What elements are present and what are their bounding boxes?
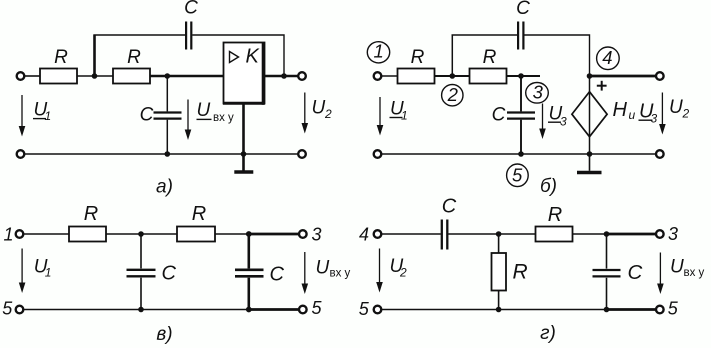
terminal: input port (b) [374, 72, 382, 80]
ground (b) [577, 154, 602, 173]
svg-text:в): в) [156, 324, 172, 345]
svg-text:2: 2 [447, 84, 459, 105]
label: U2 (a) [312, 98, 333, 122]
bottom wire (g) [381, 309, 607, 311]
capacitor C second shunt (v, emphasized) [235, 234, 285, 310]
resistor R2 (second R, v) [177, 203, 215, 242]
terminal: bottom right (b) [656, 150, 664, 158]
label: U_vx.u (v) [316, 257, 351, 279]
svg-text:г): г) [540, 323, 556, 344]
svg-text:5: 5 [668, 299, 679, 319]
svg-text:R: R [84, 203, 98, 225]
label: U1 (b) [390, 99, 408, 123]
svg-text:R: R [513, 260, 528, 283]
arrow: U1 (v) [19, 249, 26, 294]
capacitor C first shunt (v) [127, 234, 177, 310]
terminal: port 1 (v) [16, 230, 24, 238]
bottom wire to port 5 right (v, emphasized) [249, 308, 299, 311]
label: U_vx.u (g) [670, 257, 705, 280]
controlled source diamond Hu*U3 (b) [572, 92, 607, 137]
wire: riser to feedback C (b) [451, 35, 453, 77]
label: Hu U3 (b) [613, 99, 658, 126]
svg-text:C: C [492, 105, 506, 126]
svg-text:C: C [270, 264, 285, 286]
junction: shunt R bottom (g) [496, 307, 502, 313]
terminal: output port (a) [298, 72, 306, 80]
resistor R2 (second R, a) [113, 47, 150, 84]
svg-text:2: 2 [399, 266, 407, 280]
arrow: U3 (b) [539, 104, 546, 140]
ground (a) [234, 170, 253, 174]
label: U_vx.u (a) [197, 100, 235, 124]
arrow: U_vx.u measurement (a) [185, 100, 192, 141]
terminal: bottom left (b) [374, 150, 382, 158]
terminal: port 4 (g) [374, 230, 382, 238]
label: U2 (g) [390, 256, 408, 280]
arrow: U2 (b) [659, 93, 666, 135]
node 2 (circled number, b) [442, 84, 463, 106]
svg-text:u: u [629, 108, 636, 122]
wire: input lead (g) [381, 233, 441, 235]
resistor R1 (first R, a) [40, 47, 77, 84]
svg-text:5: 5 [512, 165, 523, 186]
junction: node 2 tap (b) [450, 73, 456, 79]
svg-text:2: 2 [682, 106, 690, 120]
bottom wire (b) [381, 153, 656, 155]
wire: C to junction (g) [448, 233, 498, 235]
junction: node 3 tap (b) [518, 73, 524, 79]
svg-text:C: C [442, 196, 457, 218]
wire: R1 to R2 (b) [435, 75, 470, 77]
terminal: output port (b) [656, 72, 664, 80]
svg-text:3: 3 [560, 114, 567, 128]
svg-text:C: C [516, 0, 530, 19]
svg-text:б): б) [540, 176, 557, 197]
op-amp K (amplifier block, a) [223, 42, 265, 105]
junction: second shunt C tap (v) [246, 231, 252, 237]
svg-text:3: 3 [668, 224, 678, 244]
svg-text:R: R [54, 47, 68, 68]
terminal: port 5 left (g) [374, 306, 382, 314]
svg-text:1: 1 [45, 265, 52, 279]
junction: first shunt C tap (v) [138, 231, 144, 237]
wire: node 4 to output (b, emphasized) [590, 75, 657, 78]
wire: input lead (v) [23, 233, 69, 235]
bottom wire (a) [24, 153, 299, 155]
svg-text:C: C [184, 0, 198, 19]
junction: second C bottom (v) [246, 307, 252, 313]
node 4 (circled number, b) [597, 47, 620, 70]
wire: amplifier ground lead (a) [242, 104, 245, 171]
svg-text:вх у: вх у [330, 268, 351, 280]
terminal: bottom left (a) [17, 150, 25, 158]
resistor R series (g) [536, 204, 573, 242]
svg-text:U: U [197, 100, 211, 121]
svg-text:R: R [548, 204, 562, 226]
junction: shunt C bottom (b) [518, 151, 524, 157]
svg-text:R: R [127, 47, 141, 68]
svg-text:1: 1 [401, 109, 408, 123]
wire: series R to node (g) [573, 233, 608, 235]
label: U3 (b) [548, 103, 567, 128]
capacitor C shunt (a) [140, 76, 182, 154]
junction: ground branch bottom (a) [241, 151, 247, 157]
bottom wire to port 5 right (g, emphasized) [607, 308, 657, 311]
junction: shunt R tap (g) [496, 231, 502, 237]
svg-text:R: R [483, 47, 497, 68]
svg-text:вх у: вх у [684, 267, 705, 279]
wire: node to port 3 (g, emphasized) [607, 233, 657, 236]
terminal: port 5 right (g) [656, 306, 664, 314]
wire: feedback riser (a) [93, 35, 96, 77]
junction: node 4 tap (b) [587, 73, 593, 79]
svg-text:4: 4 [359, 224, 369, 244]
wire: node to port 3 (v, emphasized) [249, 233, 299, 236]
bottom wire (v) [23, 309, 250, 311]
wire: top left segment (b) [452, 34, 518, 36]
terminal: port 3 (g) [656, 230, 664, 238]
capacitor C shunt (b) [492, 76, 535, 154]
wire: input lead (a) [24, 75, 40, 77]
svg-text:2: 2 [324, 107, 332, 121]
wire: R1 to R2 (v) [106, 233, 177, 235]
junction: shunt C bottom (a) [165, 151, 171, 157]
terminal: port 3 (v) [299, 230, 307, 238]
junction: shunt C tap (g) [604, 231, 610, 237]
capacitor C feedback (b) [516, 0, 530, 50]
resistor R2 (second R, b) [470, 47, 507, 84]
svg-text:R: R [192, 203, 206, 225]
wire: top right segment (b) [524, 35, 589, 76]
arrow: U2 (g) [376, 249, 383, 293]
junction: shunt C tap (a) [165, 73, 171, 79]
svg-text:4: 4 [602, 47, 612, 68]
svg-text:1: 1 [373, 41, 383, 62]
svg-text:вх у: вх у [213, 112, 234, 124]
svg-text:C: C [140, 105, 154, 126]
wire: input lead (b) [381, 75, 397, 77]
svg-text:U: U [312, 98, 326, 119]
label: U1 (v) [34, 257, 52, 280]
junction: shunt C bottom (g) [604, 307, 610, 313]
svg-text:R: R [411, 47, 425, 68]
wire: R1 to R2 (a) [77, 75, 113, 77]
node 5 (circled number, b) [507, 164, 529, 187]
wire: R2 to node 3 stub (b) [507, 75, 541, 77]
junction: first C bottom (v) [138, 307, 144, 313]
arrow: U_vx.u (g) [657, 253, 664, 295]
svg-text:3: 3 [533, 81, 544, 102]
node 3 (circled number, b) [526, 81, 549, 103]
wire: R2 to node (v) [215, 233, 250, 235]
arrow: U1 (b) [377, 97, 384, 136]
svg-text:1: 1 [45, 109, 52, 123]
svg-text:5: 5 [359, 299, 370, 319]
arrow: U_vx.u (v) [302, 252, 309, 294]
wire: amplifier output (a, emphasized) [265, 75, 299, 78]
arrow: U2 (a) [302, 93, 309, 134]
node 1 (circled number, b) [367, 41, 389, 63]
terminal: input port top-left (circuit a) [17, 72, 25, 80]
svg-text:C: C [628, 261, 643, 284]
wire: junction to series R (g) [499, 233, 536, 235]
label: U2 (b) [669, 97, 690, 121]
svg-text:C: C [162, 263, 177, 285]
svg-text:1: 1 [4, 224, 14, 244]
junction: source bottom (b) [587, 151, 593, 157]
capacitor C feedback (a) [184, 0, 198, 50]
resistor R1 (first R, b) [398, 47, 435, 84]
resistor R shunt (g) [492, 234, 528, 310]
wire: top feedback right segment (a) [192, 35, 284, 76]
junction: feedback tap node (a) [92, 73, 98, 79]
svg-text:H: H [613, 99, 628, 121]
svg-text:U: U [670, 257, 684, 278]
resistor R1 (first R, v) [69, 203, 106, 242]
svg-text:а): а) [156, 177, 173, 198]
junction: output feedback node (a) [281, 73, 287, 79]
wire: top feedback left segment (a) [94, 34, 186, 36]
terminal: port 5 right (v) [299, 306, 307, 314]
wire: through controlled source (b) [589, 76, 591, 154]
svg-text:U: U [316, 257, 330, 278]
terminal: bottom right (a) [298, 150, 306, 158]
wire: R2 to amplifier input (a, emphasized) [150, 75, 224, 78]
svg-text:K: K [246, 46, 261, 68]
label: U1 (a) [33, 99, 51, 123]
arrow: U1 (a) [19, 95, 26, 137]
svg-text:3: 3 [312, 224, 322, 244]
capacitor C series (g) [442, 196, 457, 250]
svg-text:5: 5 [312, 298, 323, 318]
svg-text:3: 3 [651, 112, 658, 126]
svg-text:5: 5 [2, 299, 13, 319]
plus sign of controlled source (b) [597, 81, 607, 91]
capacitor C shunt (g) [593, 234, 643, 310]
svg-text:U: U [669, 97, 683, 118]
terminal: port 5 left (v) [16, 306, 24, 314]
